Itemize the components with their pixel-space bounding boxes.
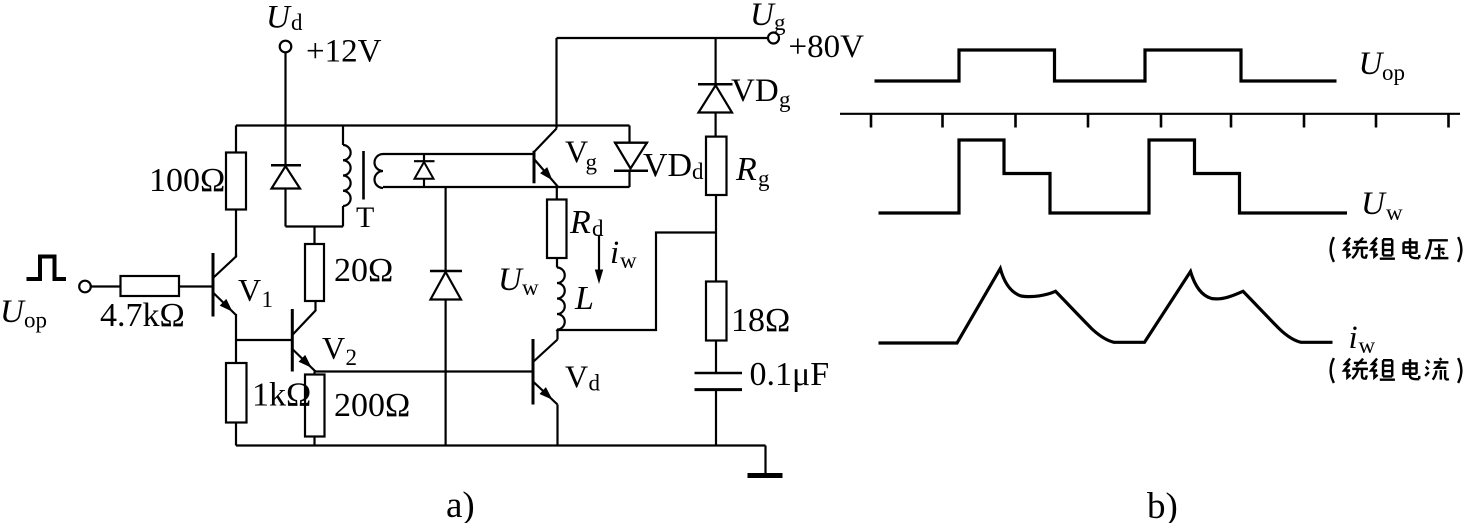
value label 18Ω [731, 302, 790, 339]
inductor L winding [557, 268, 565, 330]
wire Rg to 18Ω [715, 195, 717, 282]
wire Ud vertical [284, 53, 286, 166]
label Rd [569, 204, 604, 241]
svg-text:a): a) [446, 485, 475, 523]
transformer T primary winding [343, 126, 351, 227]
wire 200Ω top [313, 372, 315, 375]
wire resistor to V1 base [179, 285, 213, 287]
label iw [610, 235, 637, 273]
svg-text:200Ω: 200Ω [334, 387, 410, 424]
label Vg [565, 134, 598, 175]
wire secondary bottom rail [383, 186, 630, 188]
svg-text:g: g [774, 10, 786, 35]
svg-text:w: w [1359, 333, 1376, 358]
svg-text:18Ω: 18Ω [731, 302, 790, 339]
terminal Ug [768, 33, 779, 44]
pulse icon input [27, 257, 67, 280]
value label 100Ω [149, 162, 225, 199]
wire Vg collector to +80V bus [555, 38, 557, 129]
svg-text:U: U [750, 0, 776, 33]
label (winding current) [1331, 358, 1462, 383]
svg-text:U: U [266, 0, 292, 36]
wire 18Ω to capacitor [715, 341, 717, 374]
value label 20Ω [334, 252, 393, 289]
svg-text:R: R [735, 151, 757, 188]
svg-text:T: T [356, 201, 374, 234]
svg-text:U: U [498, 262, 524, 298]
transistor V1 [213, 253, 236, 317]
svg-text:d: d [589, 371, 601, 396]
wire Vd collector up to L bottom [556, 330, 558, 340]
wire diode to primary bottom [286, 225, 344, 227]
svg-text:1: 1 [262, 287, 274, 312]
terminal input [79, 281, 91, 293]
svg-text:V: V [565, 359, 588, 395]
waveform Uw [879, 140, 1348, 213]
svg-text:op: op [24, 308, 47, 333]
wire +80V bus [557, 37, 769, 39]
svg-text:20Ω: 20Ω [334, 252, 393, 289]
ground [748, 446, 783, 476]
svg-text:+80V: +80V [789, 29, 865, 65]
label (winding voltage) [1331, 237, 1462, 262]
label b) [1147, 486, 1178, 523]
diode across T primary [271, 165, 301, 226]
svg-text:VD: VD [731, 73, 779, 109]
wire L bottom to right riser [557, 233, 716, 331]
wire top bus +12V rail [236, 124, 630, 126]
capacitor 0.1µF [695, 373, 743, 446]
resistor 200Ω [305, 375, 325, 437]
resistor 20Ω [305, 244, 324, 301]
wire VDg top [714, 38, 716, 84]
clamp diode [430, 271, 462, 446]
wire bottom bus [236, 444, 766, 446]
svg-text:w: w [1386, 200, 1403, 225]
svg-text:d: d [692, 159, 704, 184]
svg-text:g: g [586, 150, 598, 175]
wire Rd to L [556, 258, 558, 268]
transformer T core [362, 151, 365, 200]
svg-text:d: d [291, 10, 303, 35]
svg-text:1kΩ: 1kΩ [252, 377, 311, 414]
svg-text:w: w [620, 248, 637, 273]
wire left branch upper [235, 126, 237, 258]
wire 1k top [235, 340, 237, 363]
transformer T secondary winding [375, 154, 384, 188]
svg-text:w: w [522, 275, 539, 300]
wire Vd emitter down [556, 405, 558, 446]
label VDd [643, 147, 704, 184]
diode VDg [698, 84, 733, 136]
label iw waveform [1349, 320, 1376, 358]
svg-text:0.1μF: 0.1μF [750, 356, 830, 393]
svg-text:4.7kΩ: 4.7kΩ [100, 297, 185, 334]
wire 200Ω bottom [313, 437, 315, 446]
resistor 4.7kΩ [121, 276, 180, 296]
svg-text:b): b) [1147, 486, 1178, 523]
label Vd [565, 359, 601, 396]
wire input to resistor [91, 285, 121, 287]
resistor Rg [706, 137, 727, 195]
wire 1k bottom [235, 423, 237, 446]
resistor Rd [547, 200, 567, 259]
time axis [840, 113, 1460, 115]
value label 4.7kΩ [100, 297, 185, 334]
value label +80V [789, 29, 865, 65]
node label Uop [0, 294, 47, 333]
svg-text:2: 2 [346, 345, 358, 370]
label L [574, 280, 594, 317]
value label 1kΩ [252, 377, 311, 414]
node label Ug [750, 0, 786, 35]
svg-text:V: V [238, 272, 261, 308]
resistor 1kΩ [226, 363, 247, 423]
terminal Ud [280, 41, 292, 53]
label Uw waveform [1361, 186, 1403, 225]
label a) [446, 485, 475, 523]
label Uw [498, 262, 539, 300]
svg-text:R: R [569, 204, 591, 241]
node label Ud [266, 0, 303, 36]
resistor 100Ω [226, 153, 246, 210]
label Uop waveform [1359, 46, 1406, 85]
svg-text:i: i [610, 235, 619, 271]
diode VDd [614, 143, 648, 171]
value label 0.1µF [750, 356, 830, 393]
wire V1 emitter down and to V2 base [236, 314, 292, 340]
value label 200Ω [334, 387, 410, 424]
wire base rail V2 emitter to Vd base [315, 370, 534, 372]
svg-text:op: op [1382, 60, 1405, 85]
resistor 18Ω [706, 282, 727, 341]
svg-text:U: U [0, 294, 26, 330]
label T [356, 201, 374, 234]
svg-text:g: g [758, 166, 770, 191]
svg-text:VD: VD [643, 147, 692, 184]
svg-text:+12V: +12V [306, 34, 382, 70]
svg-text:L: L [574, 280, 594, 317]
svg-text:i: i [1349, 320, 1358, 356]
wire junction down to clamp diode [445, 187, 447, 271]
diode across secondary [414, 154, 435, 187]
svg-text:U: U [1361, 186, 1387, 222]
current arrow iw [595, 235, 603, 284]
transistor Vg [534, 129, 558, 187]
label Rg [735, 151, 770, 191]
waveform Uop [875, 50, 1337, 81]
transistor V2 [292, 301, 315, 372]
value label +12V [306, 34, 382, 70]
axis ticks [871, 114, 1449, 128]
svg-text:U: U [1359, 46, 1385, 82]
label V1 [238, 272, 273, 312]
svg-text:g: g [779, 87, 791, 112]
wire 20Ω top [313, 227, 315, 245]
svg-text:V: V [322, 330, 345, 366]
label V2 [322, 330, 357, 370]
wire box right edge [628, 126, 630, 188]
waveform iw [879, 269, 1333, 344]
label VDg [731, 73, 791, 112]
transistor Vd [533, 339, 558, 405]
wire secondary top to Vg base [383, 153, 534, 155]
svg-text:100Ω: 100Ω [149, 162, 225, 199]
wire Vg emitter to Rd [556, 187, 558, 200]
